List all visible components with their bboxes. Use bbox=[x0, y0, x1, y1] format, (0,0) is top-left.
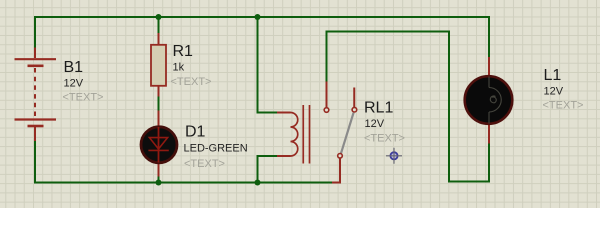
svg-text:<TEXT>: <TEXT> bbox=[364, 133, 405, 145]
svg-text:<TEXT>: <TEXT> bbox=[171, 76, 212, 88]
svg-text:<TEXT>: <TEXT> bbox=[63, 91, 104, 103]
svg-text:12V: 12V bbox=[64, 78, 84, 90]
svg-text:1k: 1k bbox=[173, 62, 185, 74]
svg-text:RL1: RL1 bbox=[364, 100, 393, 117]
svg-text:<TEXT>: <TEXT> bbox=[543, 99, 584, 111]
svg-text:R1: R1 bbox=[173, 43, 194, 60]
svg-text:B1: B1 bbox=[64, 59, 84, 76]
svg-text:<TEXT>: <TEXT> bbox=[184, 158, 225, 170]
svg-text:LED-GREEN: LED-GREEN bbox=[184, 143, 248, 155]
svg-text:L1: L1 bbox=[544, 67, 562, 84]
svg-text:12V: 12V bbox=[544, 85, 564, 97]
svg-text:D1: D1 bbox=[185, 123, 206, 140]
svg-text:12V: 12V bbox=[365, 118, 385, 130]
